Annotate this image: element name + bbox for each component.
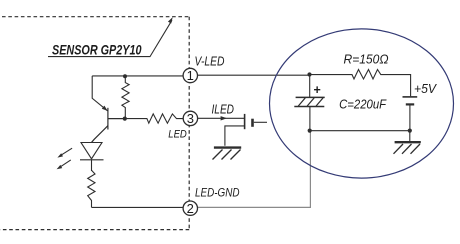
light emission arrows — [57, 148, 73, 169]
ILED current arrowhead — [221, 116, 227, 120]
wire node A to resistor and corner to battery — [310, 70, 411, 97]
svg-text:LED-GND: LED-GND — [195, 186, 240, 200]
junction dot battery bottom — [408, 129, 412, 133]
svg-text:V-LED: V-LED — [195, 55, 225, 69]
sensor outline dashed box — [0, 17, 189, 230]
resistor to pin 3 (horizontal) — [125, 114, 184, 123]
junction dot capacitor bottom — [308, 129, 312, 133]
transistor Q2 drive (MOSFET style) — [225, 114, 267, 146]
pin 1 circle — [183, 68, 197, 82]
svg-text:3: 3 — [187, 111, 194, 126]
wire V-LED rail (left of pin1) — [92, 75, 184, 77]
ground (drive transistor) — [213, 148, 242, 160]
ground (supply) — [394, 131, 421, 154]
transistor Q1 (PNP) — [92, 108, 125, 143]
capacitor C1 (polarized) — [294, 75, 324, 131]
pin 3 circle — [183, 111, 197, 125]
svg-text:SENSOR GP2Y10: SENSOR GP2Y10 — [52, 43, 142, 58]
external circuit highlight ellipse — [270, 29, 454, 178]
svg-text:+: + — [314, 83, 321, 97]
svg-text:+5V: +5V — [414, 82, 438, 96]
sensor name leader line — [48, 20, 172, 56]
Q1 emitter arrow — [102, 106, 108, 111]
wire LED-GND rail to ellipse node (gray) — [197, 131, 311, 208]
wire pin1 to node A — [197, 74, 310, 76]
pin 2 circle — [183, 201, 197, 215]
wire ILED — [197, 117, 244, 119]
leader arrowhead — [168, 17, 173, 23]
svg-text:LED: LED — [168, 129, 187, 141]
LED D1 — [80, 143, 104, 172]
svg-text:R=150Ω: R=150Ω — [344, 53, 389, 67]
node A junction dot — [307, 72, 311, 76]
resistor R led (vertical) — [88, 170, 95, 207]
battery +5V — [403, 97, 418, 131]
junction dot on V-LED rail — [123, 74, 127, 78]
wire LED-GND rail (left of pin2) — [92, 206, 184, 208]
resistor R bias (vertical) — [122, 76, 129, 118]
bottom rail inside ellipse — [310, 130, 410, 132]
svg-text:2: 2 — [187, 201, 194, 216]
junction dot at base — [123, 117, 127, 121]
svg-text:C=220uF: C=220uF — [339, 98, 387, 112]
wire emitter riser — [92, 76, 107, 111]
svg-text:1: 1 — [187, 68, 194, 83]
svg-text:ILED: ILED — [212, 103, 235, 117]
